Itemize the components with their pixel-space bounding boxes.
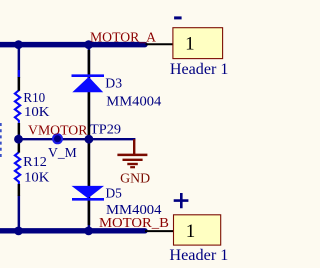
svg-text:Header 1: Header 1 (170, 61, 229, 78)
junction dot top-left (14, 40, 23, 49)
ground GND bar3 (127, 163, 138, 165)
junction dot top-mid (84, 40, 93, 49)
junction dot bottom-left (14, 227, 23, 236)
svg-text:1: 1 (186, 221, 196, 242)
wire left vertical upper (bus to R10) (18, 44, 21, 78)
polarity plus mark (174, 193, 189, 208)
junction dot mid-left (14, 135, 23, 144)
connector header top body (173, 28, 223, 59)
svg-text:10K: 10K (24, 171, 49, 186)
svg-text:R10: R10 (23, 91, 45, 106)
wire central vertical (diode branch) (88, 44, 91, 231)
ground GND bar1 (117, 154, 147, 157)
diode D5 triangle (72, 186, 105, 199)
wire MOTOR_B thick bus (bottom) (0, 228, 145, 233)
svg-text:1: 1 (185, 34, 195, 55)
diode D3 cathode bar (72, 74, 105, 77)
pin R10 bottom (18, 123, 21, 135)
resistor R10 zigzag (15, 70, 20, 123)
svg-text:TP29: TP29 (90, 122, 121, 137)
wire MOTOR_A thick bus (top) (0, 42, 145, 48)
pin header J? bottom (pin 1) (145, 230, 174, 232)
pin R10 top (18, 77, 21, 91)
svg-text:MOTOR_A: MOTOR_A (90, 30, 157, 45)
polarity minus mark (174, 16, 182, 19)
wire left vertical mid (R10 to R12 node) (18, 134, 21, 143)
svg-text:MM4004: MM4004 (106, 95, 161, 110)
svg-text:GND: GND (120, 172, 150, 187)
diode D5 cathode bar (72, 198, 104, 201)
wire stub left edge (dashed, clipped) (0, 123, 2, 159)
ground GND stem (133, 139, 135, 154)
svg-text:D5: D5 (106, 187, 122, 202)
wire VMOTOR horizontal (18, 138, 136, 140)
ground GND bar4 (130, 166, 135, 168)
junction dot bottom-mid (84, 227, 93, 236)
sheet background (0, 0, 251, 268)
wire left vertical lower (R12 to bus) (18, 196, 21, 231)
svg-text:10K: 10K (24, 105, 50, 120)
diode D3 triangle (72, 77, 103, 92)
svg-text:MOTOR_B: MOTOR_B (99, 216, 169, 231)
svg-text:R12: R12 (23, 155, 47, 170)
svg-text:Header 1: Header 1 (169, 247, 228, 264)
testpoint TP29 pad (53, 134, 62, 143)
pin header J? top (pin 1) (146, 43, 173, 45)
resistor R12 zigzag (15, 152, 20, 184)
pin R12 bottom (18, 184, 21, 196)
svg-text:VMOTOR: VMOTOR (28, 124, 88, 139)
junction dot mid-central (85, 135, 94, 144)
ground GND bar2 (123, 159, 143, 161)
svg-text:V_M: V_M (48, 146, 77, 161)
pin R12 top (18, 142, 21, 153)
connector header bottom body (174, 215, 221, 245)
svg-text:D3: D3 (105, 76, 122, 91)
